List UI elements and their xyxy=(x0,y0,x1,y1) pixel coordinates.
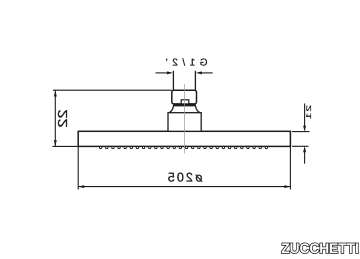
svg-text:ZUCCHETTI: ZUCCHETTI xyxy=(281,240,359,256)
dim 12 lower line with up arrow xyxy=(304,148,306,164)
dim 22 vertical line xyxy=(54,91,56,147)
shower head disc xyxy=(78,131,290,146)
cone collar top thick edge xyxy=(174,104,196,107)
svg-text:2: 2 xyxy=(305,105,313,112)
pipe right line xyxy=(194,71,196,90)
svg-text:G1/2’: G1/2’ xyxy=(166,58,208,69)
cone collar xyxy=(169,105,201,113)
pipe left line xyxy=(172,71,174,90)
connection nut xyxy=(172,90,197,104)
G1/2 dimension right arrow xyxy=(198,72,213,74)
dim 12 upper line with down arrow xyxy=(304,104,306,131)
dia 205 left extension line xyxy=(77,146,79,189)
nut notch xyxy=(181,100,189,104)
dia 205 right extension line xyxy=(289,146,291,189)
svg-text:ø205: ø205 xyxy=(168,170,203,184)
dim 22 bottom extension line xyxy=(53,145,79,147)
dia 205 dimension line xyxy=(78,186,290,188)
G1/2 dimension left arrow xyxy=(156,72,172,74)
dim 12 bottom extension line xyxy=(292,145,309,147)
svg-text:1: 1 xyxy=(305,113,313,120)
svg-text:22: 22 xyxy=(55,109,70,127)
center line xyxy=(184,84,186,154)
nozzle dots xyxy=(99,146,267,148)
mounting base block xyxy=(168,113,201,132)
dim 12 top extension line xyxy=(292,131,310,133)
dim 22 top extension line xyxy=(53,89,172,91)
